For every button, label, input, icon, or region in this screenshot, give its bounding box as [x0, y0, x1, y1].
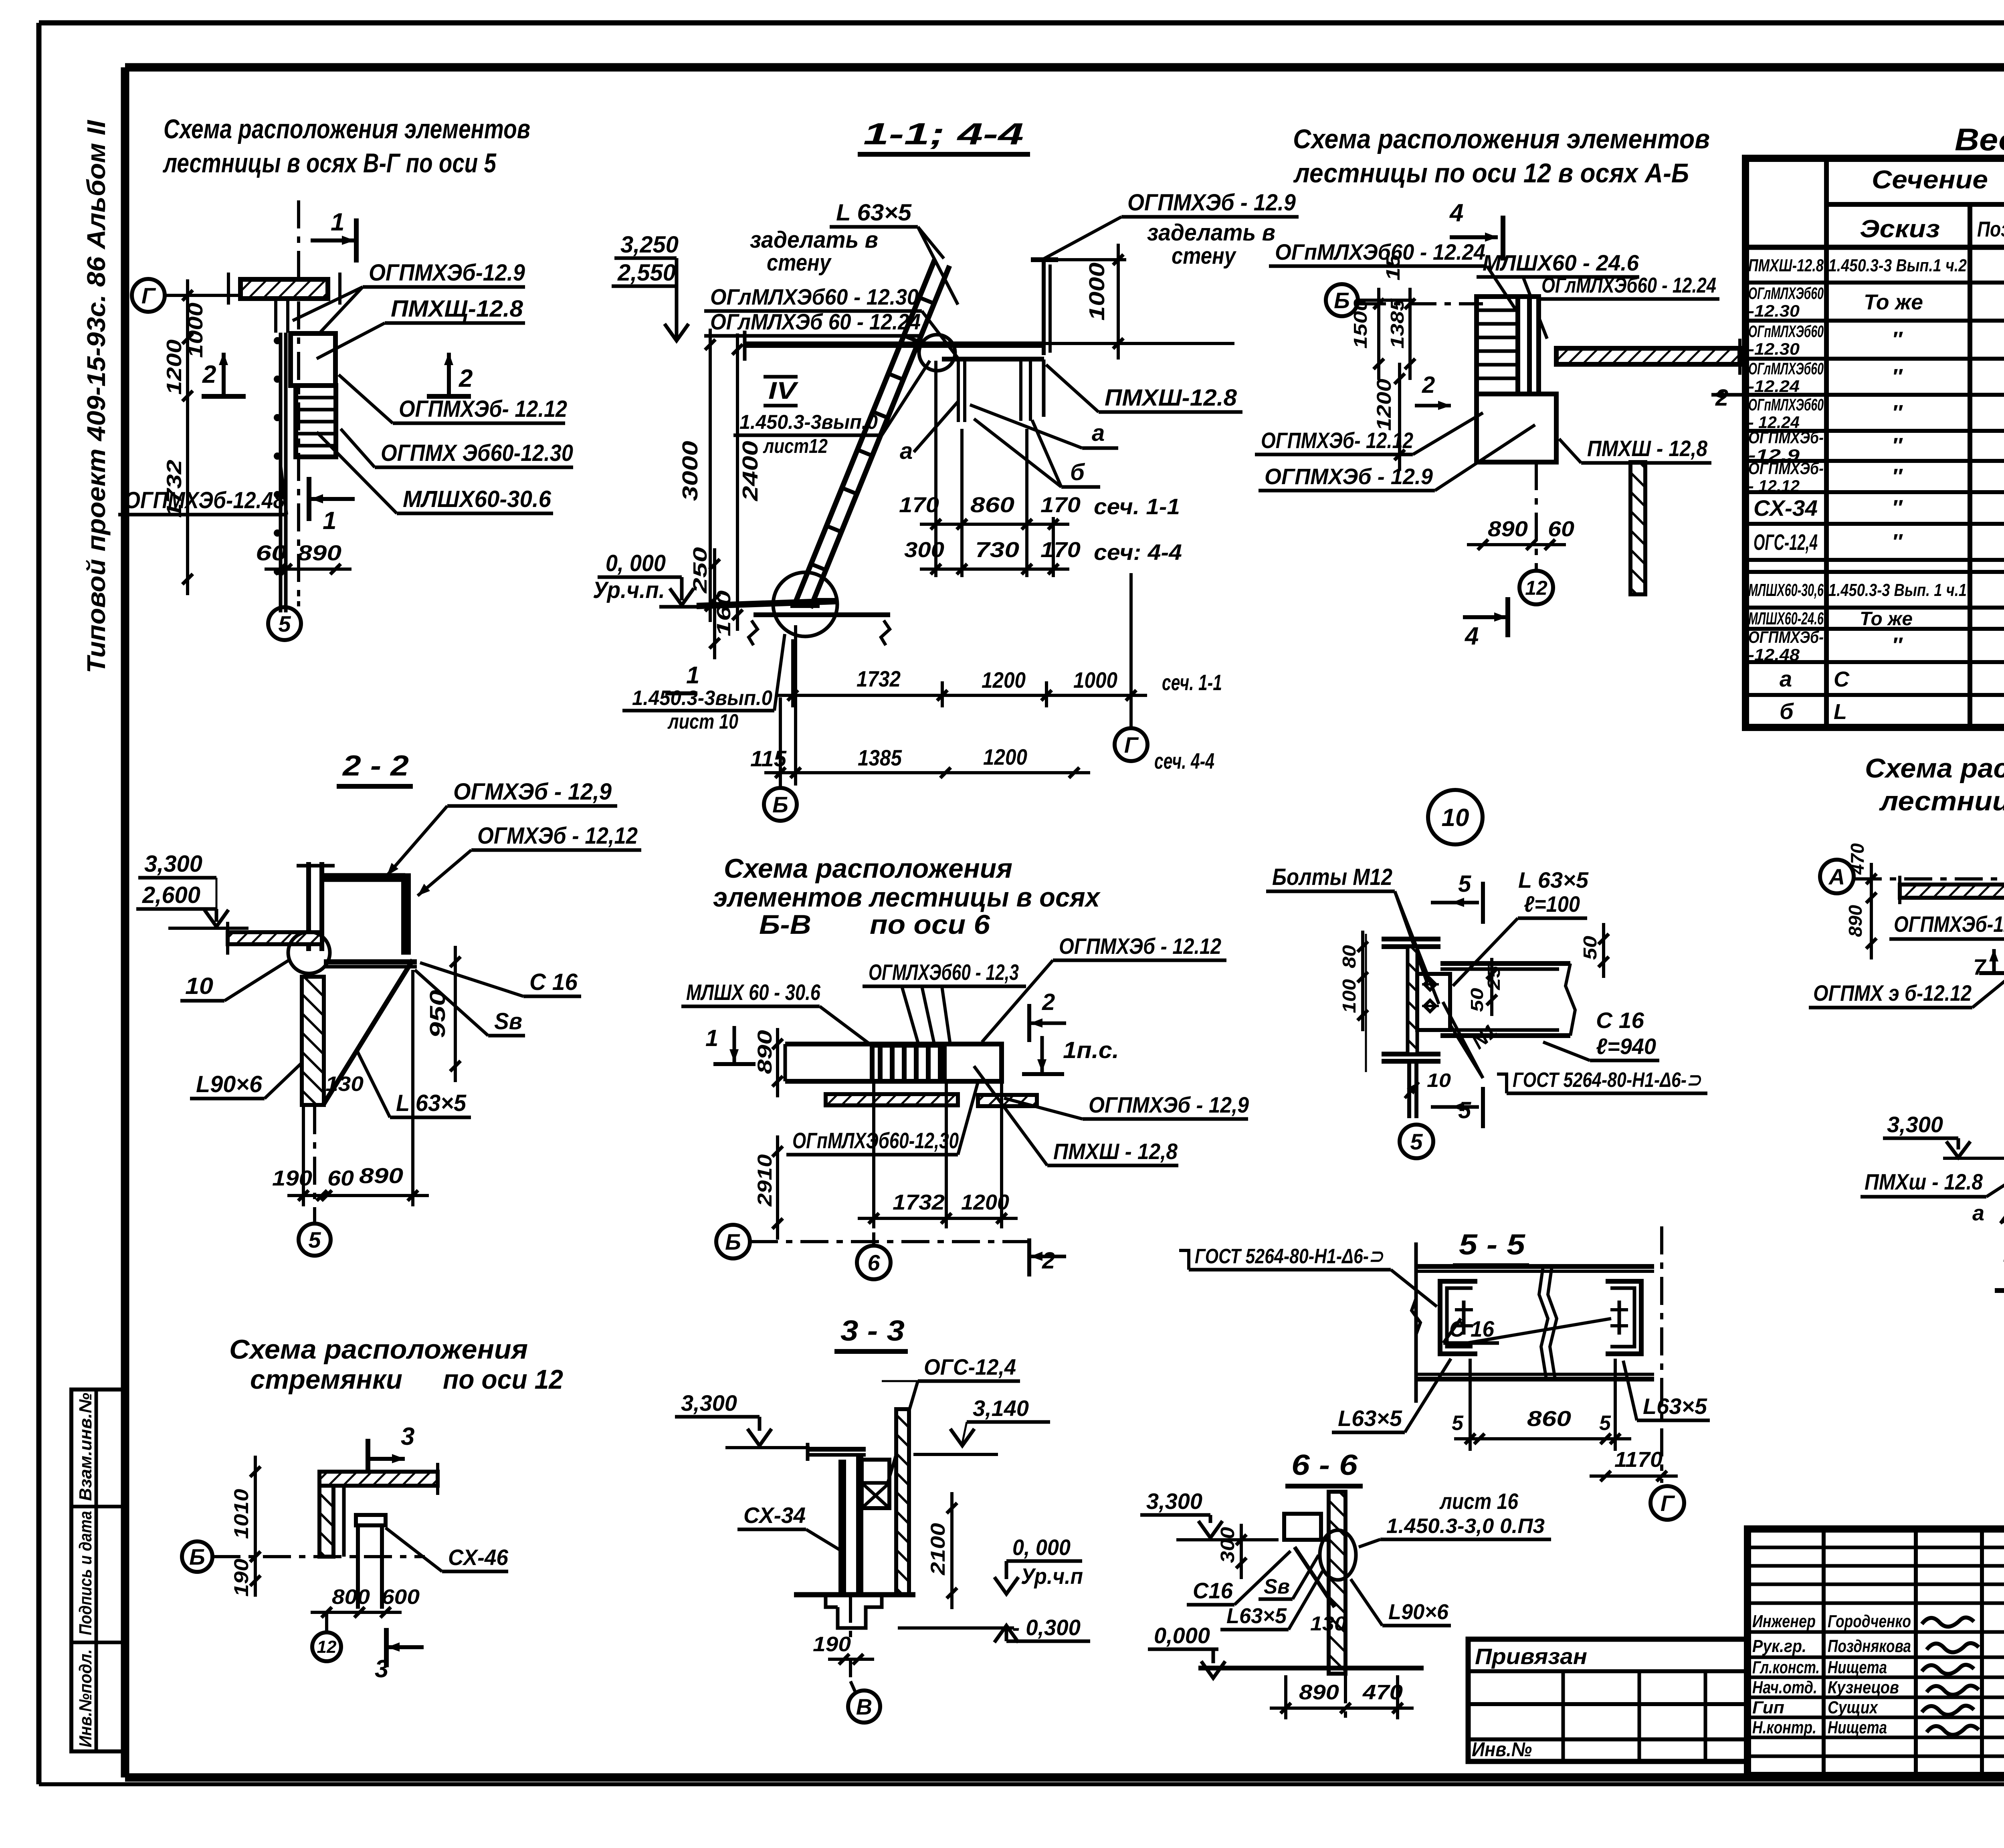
svg-text:12: 12	[317, 1637, 337, 1657]
slab hatched strips (оси А)	[1900, 885, 2004, 898]
svg-text:ОГПМХЭб - 12.9: ОГПМХЭб - 12.9	[1265, 464, 1433, 489]
svg-text:ОГПМХЭб-: ОГПМХЭб-	[1748, 428, 1824, 447]
svg-text:МЛШХ60 - 24.6: МЛШХ60 - 24.6	[1483, 250, 1639, 275]
dims 470 890 rotated (оси А)	[1870, 863, 1873, 959]
svg-text:б: б	[1780, 699, 1794, 724]
ladder bracket СХ-46 plan (стремянка)	[356, 1515, 386, 1525]
svg-text:стремянки: стремянки	[250, 1364, 402, 1395]
axis circle Б (стремянка)	[182, 1541, 212, 1572]
hanging stile a	[957, 360, 960, 422]
svg-text:Б: Б	[1334, 288, 1350, 313]
svg-text:Подпись и дата: Подпись и дата	[76, 1511, 95, 1635]
slab hatched strip (Б-В)	[826, 1094, 958, 1105]
dims 1010 190 rotated (стремянка)	[254, 1456, 257, 1573]
svg-text:Ур.ч.п: Ур.ч.п	[1021, 1563, 1083, 1589]
svg-text:С 16: С 16	[529, 969, 578, 995]
svg-text:1: 1	[686, 662, 699, 689]
svg-text:Схема расположения элементо: Схема расположения элементов	[1865, 753, 2004, 784]
svg-text:СХ-34: СХ-34	[1753, 495, 1818, 521]
svg-text:Б: Б	[772, 792, 788, 817]
floor lines at 0.000	[659, 605, 705, 609]
svg-text:890: 890	[754, 1030, 776, 1074]
svg-text:1385: 1385	[858, 745, 902, 770]
svg-text:Инженер: Инженер	[1752, 1612, 1816, 1631]
svg-text:С 16: С 16	[1596, 1008, 1644, 1033]
svg-text:Нач.отд.: Нач.отд.	[1752, 1678, 1817, 1697]
svg-text:Нищета: Нищета	[1828, 1718, 1887, 1737]
svg-text:860: 860	[1527, 1407, 1571, 1431]
landing plan square ПМХШ-12.8	[1477, 394, 1556, 462]
svg-text:ОГПМХЭб- 12.12: ОГПМХЭб- 12.12	[399, 396, 567, 422]
svg-text:а: а	[900, 438, 913, 464]
svg-text:ОГМХЭб - 12,9: ОГМХЭб - 12,9	[453, 779, 612, 805]
svg-text:2: 2	[202, 361, 216, 388]
axis circle 12	[1519, 571, 1553, 604]
column hatched bar (6-6)	[1329, 1492, 1345, 1674]
ladder top node circle	[919, 335, 955, 371]
svg-text:лист12: лист12	[763, 435, 828, 457]
svg-text:50: 50	[1580, 936, 1600, 960]
svg-text:То же: То же	[1860, 608, 1913, 630]
svg-text:ℓ=100: ℓ=100	[1524, 891, 1580, 917]
column stub under slab	[274, 299, 277, 333]
svg-text:Болты М12: Болты М12	[1272, 864, 1392, 890]
node circle 10 big	[1428, 790, 1483, 844]
svg-text:L 63×5: L 63×5	[836, 200, 912, 226]
hatched strip next to ladder	[1518, 297, 1539, 394]
svg-text:Sв: Sв	[494, 1008, 522, 1034]
svg-text:С 16: С 16	[1449, 1316, 1495, 1341]
top shelf (3-3)	[808, 1447, 866, 1452]
axis circle 12 (стремянка)	[325, 1612, 328, 1631]
svg-text:2,600: 2,600	[142, 882, 200, 908]
svg-text:1000: 1000	[1085, 263, 1109, 321]
svg-text:2: 2	[1042, 989, 1055, 1015]
svg-text:1200: 1200	[983, 744, 1027, 769]
I-beam column section (node10)	[1382, 937, 1440, 941]
svg-text:ОГлМЛХЭб60: ОГлМЛХЭб60	[1748, 284, 1824, 303]
drawing frame	[125, 63, 2004, 72]
svg-text:Ур.ч.п.: Ур.ч.п.	[593, 577, 665, 603]
axis line down to circle 12	[1535, 462, 1538, 571]
svg-text:лестницы по оси А в осях: лестницы по оси А в осях 2-3	[1879, 786, 2004, 816]
svg-text:Взам.инв.№: Взам.инв.№	[76, 1393, 95, 1501]
svg-text:1-1; 4-4: 1-1; 4-4	[863, 117, 1024, 151]
svg-text:1.450.3-3вып.0: 1.450.3-3вып.0	[632, 687, 772, 710]
svg-text:сеч: 4-4: сеч: 4-4	[1094, 539, 1182, 565]
platform ПМХШ-12.8 plan rect	[291, 333, 335, 386]
svg-text:1732: 1732	[857, 666, 901, 691]
svg-text:4: 4	[1464, 622, 1479, 650]
svg-text:Нищета: Нищета	[1828, 1658, 1887, 1677]
svg-text:50: 50	[1467, 988, 1487, 1012]
svg-text:В: В	[856, 1694, 872, 1719]
node ellipse (6-6)	[1320, 1530, 1356, 1580]
svg-text:1000: 1000	[1073, 667, 1117, 693]
svg-text:470: 470	[1847, 843, 1868, 875]
axis circle А	[1820, 860, 1854, 893]
svg-text:1.450.3-3 Вып. 1 ч.1: 1.450.3-3 Вып. 1 ч.1	[1828, 580, 1967, 600]
svg-text:Схема расположения: Схема расположения	[229, 1334, 528, 1365]
svg-text:890: 890	[1845, 905, 1866, 937]
svg-text:2 - 2: 2 - 2	[342, 750, 409, 782]
svg-text:Схема расположения: Схема расположения	[724, 853, 1012, 884]
svg-text:0,000: 0,000	[1154, 1623, 1210, 1648]
diagonal brace L63x5 (2-2)	[323, 960, 413, 1105]
svg-text:стену: стену	[767, 250, 832, 276]
axis circle 5 bottom	[297, 601, 300, 606]
channel C16 horizontal (node10)	[1440, 961, 1570, 966]
svg-text:1.450.3-3,0 0.П3: 1.450.3-3,0 0.П3	[1386, 1515, 1545, 1538]
svg-text:ОГпМЛХЭб60 - 12.24: ОГпМЛХЭб60 - 12.24	[1275, 239, 1485, 265]
dim 890 rotated (Б-В)	[776, 1028, 779, 1097]
svg-text:Б-В: Б-В	[759, 909, 811, 940]
svg-text:Кузнецов: Кузнецов	[1828, 1678, 1899, 1697]
svg-text:МЛШХ60-24.6: МЛШХ60-24.6	[1748, 609, 1824, 628]
svg-text:3,140: 3,140	[973, 1396, 1029, 1421]
svg-text:ОГлМЛХЭб 60 - 12.24: ОГлМЛХЭб 60 - 12.24	[710, 309, 921, 334]
dash-dot axis right (5-5)	[1660, 1226, 1663, 1483]
sheet outer border	[39, 20, 2004, 26]
svg-text:Ведомость: Ведомость	[1955, 122, 2004, 157]
svg-text:3 - 3: 3 - 3	[840, 1315, 905, 1347]
wall stile hatched below (2-2)	[302, 977, 324, 1105]
svg-text:СХ-34: СХ-34	[743, 1503, 806, 1528]
stile ОГПМХЭб-12.48 vertical with rung dots	[279, 333, 283, 612]
channel C16 horizontal (2-2)	[324, 959, 417, 965]
svg-text:Городченко: Городченко	[1828, 1612, 1911, 1631]
ladder СХ-34 struts (3-3)	[838, 1460, 842, 1597]
axis circle 5 (node10)	[1400, 1125, 1433, 1158]
svg-text:10: 10	[185, 973, 213, 999]
inclined ladder stringers with rungs	[796, 260, 935, 602]
svg-text:стену: стену	[1172, 243, 1236, 269]
svg-text:130: 130	[1310, 1612, 1346, 1635]
svg-text:2: 2	[459, 365, 473, 392]
svg-text:1000: 1000	[184, 303, 207, 358]
svg-text:170: 170	[899, 493, 939, 517]
title block left grid horizontals	[1747, 1546, 2004, 1549]
svg-text:МЛШХ60-30.6: МЛШХ60-30.6	[403, 486, 552, 512]
svg-text:по оси 6: по оси 6	[870, 909, 990, 940]
svg-text:ОГПМХЭб - 12.9: ОГПМХЭб - 12.9	[1127, 190, 1296, 216]
svg-text:Sв: Sв	[1264, 1575, 1290, 1598]
svg-text:лестницы в осях В-Г по ос: лестницы в осях В-Г по оси 5	[163, 148, 497, 178]
svg-text:ПМХШ - 12,8: ПМХШ - 12,8	[1587, 436, 1708, 461]
svg-text:890: 890	[1488, 517, 1528, 541]
svg-text:лист 10: лист 10	[667, 710, 739, 733]
svg-text:IV: IV	[768, 377, 799, 404]
column web below (node10)	[1407, 1061, 1411, 1118]
node circle 10 (2-2)	[288, 932, 330, 973]
svg-text:1170: 1170	[1614, 1448, 1663, 1472]
svg-text:3: 3	[401, 1423, 414, 1450]
svg-text:3,250: 3,250	[620, 232, 679, 258]
svg-text:То же: То же	[1864, 290, 1923, 314]
axis circle Г bottom of 1-1	[1115, 728, 1147, 761]
axis circle Г	[132, 279, 165, 312]
svg-text:лестницы по оси 12 в осях А: лестницы по оси 12 в осях А-Б	[1293, 158, 1689, 188]
svg-text:Гип: Гип	[1752, 1698, 1784, 1717]
hatched slab on axis Г	[240, 279, 328, 299]
dim 2100 rotated (3-3)	[950, 1492, 954, 1609]
svg-text:а: а	[1972, 1201, 1984, 1225]
svg-text:Б: Б	[725, 1229, 741, 1254]
axis line 5 vertical	[297, 200, 300, 601]
svg-text:300: 300	[1217, 1527, 1238, 1563]
dim 2910 rotated (Б-В)	[776, 1135, 779, 1240]
svg-text:1200: 1200	[163, 339, 186, 395]
svg-text:Г: Г	[1124, 732, 1139, 757]
svg-text:800: 800	[332, 1585, 370, 1609]
svg-text:6: 6	[867, 1250, 880, 1275]
hatched slab right (оси 12)	[1556, 348, 1740, 364]
svg-text:Рук.гр.: Рук.гр.	[1752, 1636, 1806, 1656]
dim 950 (2-2)	[454, 946, 457, 1082]
svg-text:80: 80	[1339, 945, 1360, 968]
svg-text:2100: 2100	[927, 1523, 949, 1575]
vertical dimension chain 1000/1200/1732	[186, 279, 189, 595]
svg-text:730: 730	[975, 538, 1019, 562]
svg-text:Б: Б	[189, 1544, 205, 1569]
svg-text:-12.30: -12.30	[1748, 301, 1800, 320]
svg-text:L 63×5: L 63×5	[396, 1090, 467, 1116]
svg-text:1010: 1010	[230, 1489, 253, 1539]
svg-text:С: С	[1834, 667, 1850, 691]
ladder foot node circle	[773, 572, 837, 636]
right vertical dim 1000	[1044, 342, 1234, 345]
svg-text:3,300: 3,300	[681, 1390, 737, 1416]
svg-text:ОГПМХЭб - 12.12: ОГПМХЭб - 12.12	[1059, 933, 1221, 959]
svg-text:15: 15	[1383, 254, 1404, 281]
привязан table box	[1468, 1639, 1747, 1761]
svg-text:250: 250	[690, 547, 711, 594]
foot detail (3-3)	[826, 1595, 838, 1607]
section mark 1 bottom	[311, 497, 355, 501]
left margin stamp table	[71, 1390, 125, 1751]
svg-text:сеч. 1-1: сеч. 1-1	[1094, 494, 1180, 519]
svg-text:Поз: Поз	[1977, 217, 2004, 241]
dim 250 160 left of foot	[713, 548, 716, 659]
svg-text:Н.контр.: Н.контр.	[1752, 1718, 1816, 1737]
break left edge (5-5)	[1412, 1299, 1420, 1335]
svg-text:″: ″	[1892, 327, 1903, 351]
svg-text:L63×5: L63×5	[1226, 1604, 1287, 1628]
stile hatched below landing	[1630, 462, 1645, 594]
svg-text:ОГлМЛХЭб60: ОГлМЛХЭб60	[1748, 359, 1824, 378]
svg-text:ГОСТ 5264-80-Н1-Δ6-⊃: ГОСТ 5264-80-Н1-Δ6-⊃	[1513, 1068, 1701, 1092]
svg-text:2,550: 2,550	[617, 260, 676, 286]
gusset plate with bolts (node10)	[1417, 974, 1450, 1030]
axis circle Г (5-5)	[1650, 1486, 1684, 1520]
svg-text:Г: Г	[141, 283, 156, 308]
axis circle В (3-3)	[849, 1659, 852, 1677]
svg-text:заделать в: заделать в	[750, 227, 878, 253]
svg-text:″: ″	[1892, 401, 1903, 425]
svg-text:7: 7	[1973, 954, 1987, 980]
svg-text:Типовой проект 409-15-93с.: Типовой проект 409-15-93с. 86 Альбом II	[82, 120, 111, 673]
svg-text:по оси 12: по оси 12	[443, 1364, 563, 1395]
svg-text:ОГлМЛХЭб60 - 12.30: ОГлМЛХЭб60 - 12.30	[710, 284, 919, 309]
svg-text:ОГПМХ э б-12.12: ОГПМХ э б-12.12	[1813, 980, 1972, 1006]
ladder plan with rungs (оси 12)	[1477, 297, 1518, 394]
svg-text:6 - 6: 6 - 6	[1291, 1449, 1358, 1481]
svg-text:100: 100	[1339, 979, 1360, 1013]
axis dash-dot horizontal (оси А)	[1854, 877, 2004, 881]
svg-text:300: 300	[904, 538, 944, 562]
svg-text:12: 12	[1525, 577, 1547, 599]
svg-text:190: 190	[230, 1559, 253, 1597]
axis circle Б bottom of 1-1	[764, 788, 797, 821]
svg-text:ПМХШ-12.8: ПМХШ-12.8	[1105, 385, 1237, 411]
svg-text:1732: 1732	[893, 1190, 945, 1214]
floor slab hatched (2-2)	[228, 932, 322, 944]
svg-text:ПМХЩ-12.8: ПМХЩ-12.8	[391, 296, 523, 322]
title block left grid verticals	[1822, 1529, 1826, 1775]
landing beam (2-2)	[322, 873, 405, 879]
svg-text:890: 890	[1299, 1681, 1339, 1704]
svg-text:ОГПМХЭб-12.9: ОГПМХЭб-12.9	[1894, 911, 2004, 937]
bracket box C16 (6-6)	[1284, 1514, 1321, 1540]
title block frame	[1747, 1529, 2004, 1775]
diagonal brace (6-6)	[1295, 1547, 1335, 1607]
column above landing (2-2)	[306, 862, 311, 951]
floor lines (7-7)	[1995, 1288, 2004, 1293]
svg-text:160: 160	[713, 590, 735, 636]
svg-text:170: 170	[1040, 538, 1081, 562]
svg-text:-12.30: -12.30	[1748, 339, 1800, 358]
svg-text:60: 60	[256, 541, 287, 565]
svg-text:890: 890	[359, 1164, 403, 1188]
floor line (6-6)	[1198, 1666, 1424, 1670]
svg-text:Эскиз: Эскиз	[1860, 215, 1940, 243]
svg-text:L: L	[1834, 700, 1847, 724]
svg-text:1500: 1500	[1350, 299, 1371, 349]
svg-text:60: 60	[1548, 517, 1574, 541]
svg-text:Сущих: Сущих	[1828, 1698, 1878, 1717]
svg-text:″: ″	[1892, 633, 1903, 657]
svg-text:б: б	[1070, 459, 1085, 485]
C-channel left (5-5)	[1440, 1281, 1477, 1354]
vertical dim 1200	[1398, 363, 1401, 471]
svg-text:2400: 2400	[738, 441, 762, 501]
svg-text:950: 950	[426, 990, 450, 1038]
svg-text:ОГС-12,4: ОГС-12,4	[1753, 529, 1818, 555]
svg-text:ℓ=940: ℓ=940	[1596, 1034, 1656, 1059]
svg-text:а: а	[1092, 420, 1105, 446]
axis line and circle 5 (2-2)	[313, 1106, 316, 1222]
svg-text:ОГС-12,4: ОГС-12,4	[924, 1354, 1016, 1379]
wall hatched vertical (3-3)	[896, 1409, 909, 1595]
svg-text:L90×6: L90×6	[196, 1071, 263, 1097]
svg-text:- 12.12: - 12.12	[1748, 477, 1800, 495]
svg-text:МЛШХ60-30,6: МЛШХ60-30,6	[1748, 580, 1824, 600]
svg-text:5: 5	[1458, 1097, 1471, 1123]
hanging stile b	[1019, 360, 1022, 421]
vertical dim 1500 1385 left	[1377, 288, 1380, 380]
svg-text:Инв.№подл.: Инв.№подл.	[76, 1649, 95, 1747]
svg-text:ОГлМЛХЭб60 - 12.24: ОГлМЛХЭб60 - 12.24	[1541, 273, 1716, 297]
svg-text:3,300: 3,300	[1146, 1488, 1202, 1514]
svg-text:элементов лестницы в осях: элементов лестницы в осях	[713, 882, 1101, 913]
svg-text:″: ″	[1892, 365, 1903, 389]
svg-text:Схема расположения элементов: Схема расположения элементов	[164, 114, 530, 144]
svg-text:а: а	[1780, 666, 1792, 691]
svg-text:3,300: 3,300	[1887, 1112, 1943, 1137]
svg-text:60: 60	[327, 1166, 354, 1190]
svg-text:- 0,300: - 0,300	[1012, 1615, 1081, 1640]
svg-text:ПМХШ-12.8: ПМХШ-12.8	[1748, 256, 1824, 275]
svg-text:ПМХш - 12.8: ПМХш - 12.8	[1865, 1169, 1983, 1194]
svg-text:4: 4	[1449, 199, 1463, 227]
section mark 2 right	[447, 353, 451, 395]
svg-text:″: ″	[1892, 434, 1903, 458]
dim 50 right top (node10)	[1602, 923, 1605, 978]
svg-text:заделать в: заделать в	[1147, 220, 1275, 246]
svg-text:2910: 2910	[754, 1154, 776, 1207]
break squiggles middle (5-5)	[1539, 1266, 1548, 1379]
section mark 1 top	[311, 238, 355, 242]
platform lines (5-5)	[1416, 1264, 1654, 1269]
svg-text:ОГПМХЭб-: ОГПМХЭб-	[1748, 628, 1824, 646]
svg-text:5: 5	[1458, 871, 1471, 897]
axis circle Б (Б-В) and dash-dot	[716, 1225, 750, 1258]
svg-text:1п.с.: 1п.с.	[1063, 1037, 1119, 1063]
svg-text:ОГПМХЭб-12.9: ОГПМХЭб-12.9	[369, 260, 525, 286]
svg-text:1200: 1200	[982, 667, 1026, 693]
svg-text:190: 190	[813, 1633, 851, 1656]
svg-text:5: 5	[308, 1227, 321, 1252]
svg-text:МЛШХ 60 - 30.6: МЛШХ 60 - 30.6	[686, 980, 821, 1005]
svg-text:лист 16: лист 16	[1439, 1488, 1518, 1514]
slab hatched (стремянка)	[319, 1472, 438, 1486]
axis circle Б left	[1326, 284, 1358, 316]
svg-text:Инв.№: Инв.№	[1472, 1738, 1532, 1761]
svg-text:СХ-46: СХ-46	[448, 1545, 509, 1570]
svg-text:3000: 3000	[678, 441, 702, 501]
svg-text:ОГПМХЭб-12.48: ОГПМХЭб-12.48	[124, 487, 285, 513]
svg-text:Схема расположения элементов: Схема расположения элементов	[1293, 124, 1710, 154]
ladder МЛШХ60-30.6 plan with rungs	[296, 386, 336, 457]
svg-text:″: ″	[1892, 530, 1903, 554]
svg-text:1: 1	[331, 208, 344, 236]
svg-text:5: 5	[1410, 1129, 1423, 1154]
svg-text:″: ″	[1892, 496, 1903, 520]
svg-text:600: 600	[382, 1585, 420, 1609]
svg-text:1: 1	[323, 507, 336, 535]
svg-text:ОГПМХЭб-: ОГПМХЭб-	[1748, 459, 1824, 478]
svg-text:0, 000: 0, 000	[606, 550, 666, 576]
svg-text:1.450.3-3вып.0: 1.450.3-3вып.0	[739, 411, 878, 433]
svg-text:ОГПМХЭб - 12,9: ОГПМХЭб - 12,9	[1089, 1092, 1249, 1117]
svg-text:Сечение: Сечение	[1872, 165, 1988, 194]
svg-text:Г: Г	[1661, 1491, 1675, 1516]
wall anchor stile right ОГПМХЭб-12.9	[1042, 258, 1046, 355]
svg-text:5: 5	[278, 611, 291, 636]
svg-text:ОГпМЛХЭб60: ОГпМЛХЭб60	[1748, 322, 1824, 341]
landing floor line at 2,550	[745, 341, 1044, 348]
svg-text:ОГПМХ Эб60-12.30: ОГПМХ Эб60-12.30	[381, 440, 573, 466]
svg-text:L63×5: L63×5	[1643, 1394, 1707, 1419]
wall corner hatched (стремянка)	[319, 1486, 333, 1557]
C-channel right (5-5)	[1606, 1281, 1641, 1354]
svg-text:1: 1	[705, 1025, 718, 1051]
svg-text:10: 10	[1442, 804, 1469, 832]
svg-text:0, 000: 0, 000	[1012, 1535, 1071, 1560]
svg-text:ГОСТ 5264-80-Н1-Δ6-⊃: ГОСТ 5264-80-Н1-Δ6-⊃	[1195, 1245, 1384, 1268]
dimension 60 890 bottom	[265, 568, 352, 571]
svg-text:″: ″	[1892, 465, 1903, 489]
